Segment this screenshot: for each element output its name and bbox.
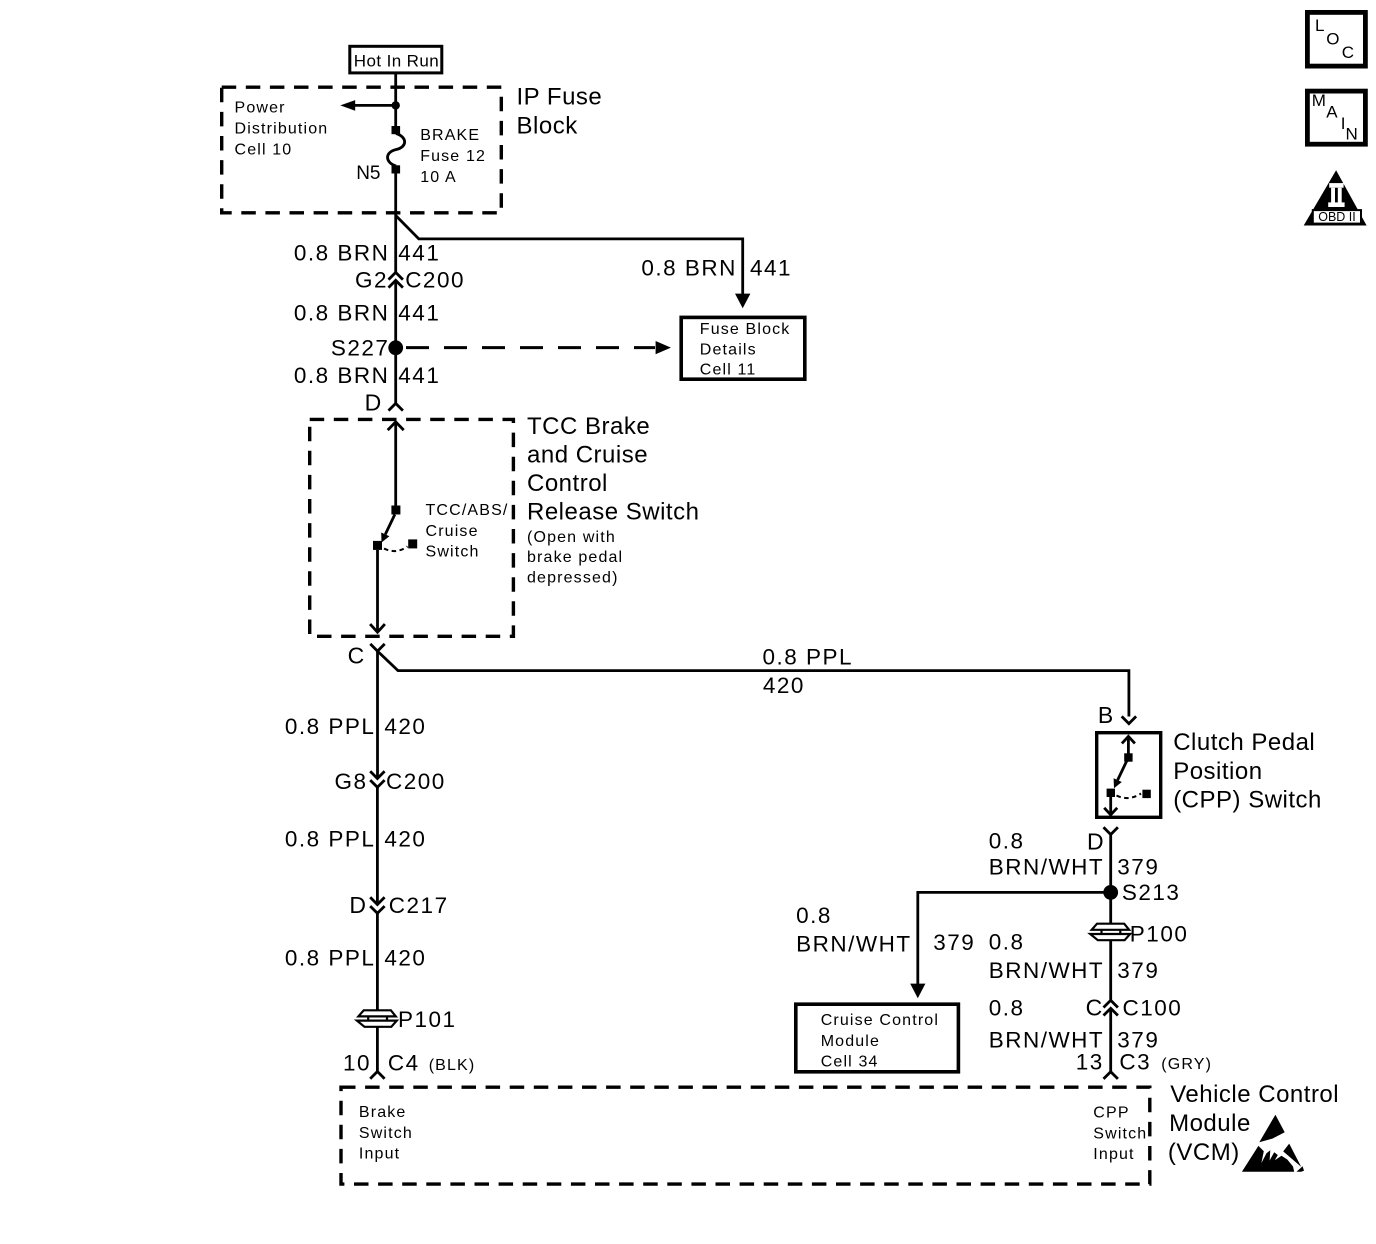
TCC switch blade with arrow — [381, 515, 395, 543]
svg-text:BRN/WHT: BRN/WHT — [989, 958, 1104, 983]
label 0.8 PPL 420 (row 3) — [285, 946, 427, 971]
svg-text:0.8: 0.8 — [989, 930, 1025, 955]
wire C100 to C3 — [1109, 1008, 1112, 1071]
svg-text:Switch: Switch — [1093, 1125, 1147, 1142]
svg-text:Position: Position — [1173, 758, 1262, 785]
terminal C at TCC switch — [348, 643, 385, 669]
terminal D at TCC switch — [365, 389, 403, 415]
svg-text:(Open with: (Open with — [527, 529, 616, 546]
svg-text:OBD II: OBD II — [1318, 210, 1356, 224]
connector D C217 (double chevron down) — [349, 892, 448, 918]
label 0.8 BRN/WHT 379 (P100 to C100) — [989, 930, 1160, 984]
svg-text:0.8: 0.8 — [989, 828, 1025, 853]
svg-text:Input: Input — [1093, 1146, 1134, 1163]
svg-text:IP Fuse: IP Fuse — [517, 84, 603, 111]
label 0.8 BRN/WHT 379 (CPP to S213) — [989, 828, 1160, 879]
CPP switch blade with arrow — [1114, 761, 1127, 788]
label 0.8 BRN 441 (row 2) — [294, 300, 440, 325]
svg-text:Fuse Block: Fuse Block — [700, 321, 791, 338]
svg-text:(VCM): (VCM) — [1168, 1139, 1240, 1166]
svg-text:D: D — [365, 389, 382, 415]
svg-text:(GRY): (GRY) — [1161, 1056, 1212, 1073]
wire from Hot In Run into IP fuse block — [394, 74, 397, 105]
svg-text:420: 420 — [384, 826, 426, 851]
svg-text:B: B — [1098, 702, 1114, 728]
svg-text:C: C — [1086, 994, 1103, 1020]
Fuse Block Details Cell 11 box — [681, 317, 805, 379]
svg-text:N5: N5 — [356, 163, 380, 184]
TCC switch upper contact — [391, 506, 400, 515]
svg-text:D: D — [349, 892, 366, 918]
svg-text:C: C — [348, 643, 365, 669]
svg-text:379: 379 — [933, 930, 975, 955]
Vehicle Control Module dashed box — [341, 1087, 1150, 1184]
svg-text:441: 441 — [398, 300, 440, 325]
svg-text:N: N — [1346, 125, 1359, 144]
svg-text:O: O — [1326, 30, 1340, 49]
grommet P100 — [1090, 922, 1188, 947]
connector C C100 (double chevron up) — [989, 994, 1183, 1020]
svg-text:Module: Module — [1169, 1110, 1251, 1137]
svg-text:and Cruise: and Cruise — [527, 441, 648, 468]
IP Fuse Block label — [517, 84, 603, 140]
svg-text:0.8 BRN: 0.8 BRN — [294, 363, 390, 388]
svg-text:441: 441 — [750, 256, 792, 281]
arrow to Power Distribution — [340, 100, 395, 111]
terminal 13 C3 (GRY) — [1076, 1049, 1212, 1079]
CPP switch exit wire with arrow (down) — [1104, 797, 1117, 815]
wire from fuse down to G2 connector — [394, 174, 397, 273]
svg-text:depressed): depressed) — [527, 570, 619, 587]
svg-text:441: 441 — [398, 363, 440, 388]
svg-text:S213: S213 — [1122, 880, 1181, 905]
svg-text:10: 10 — [343, 1050, 371, 1075]
MAIN page symbol — [1307, 91, 1365, 144]
svg-text:Brake: Brake — [359, 1104, 407, 1121]
TCC switch throw contact and dashed arc — [384, 539, 417, 551]
connector G8 C200 (double chevron down) — [334, 769, 445, 794]
TCC/ABS/Cruise Switch label — [426, 502, 509, 560]
svg-text:C4: C4 — [388, 1050, 420, 1075]
svg-text:Vehicle Control: Vehicle Control — [1170, 1081, 1339, 1108]
svg-text:Cruise Control: Cruise Control — [821, 1012, 939, 1029]
svg-text:420: 420 — [763, 673, 805, 698]
svg-text:Cell 34: Cell 34 — [821, 1054, 879, 1071]
svg-text:(CPP) Switch: (CPP) Switch — [1173, 786, 1322, 813]
LOC page symbol — [1307, 12, 1365, 66]
svg-text:441: 441 — [398, 240, 440, 265]
terminal 10 C4 (BLK) — [343, 1050, 475, 1078]
svg-text:Clutch Pedal: Clutch Pedal — [1173, 729, 1315, 756]
fuse F12 BRAKE 10A — [388, 126, 405, 174]
wire S213 to P100 — [1109, 892, 1112, 923]
TCC Brake and Cruise Control Release Switch dashed box — [310, 419, 514, 636]
wire C217 to P101 — [376, 913, 379, 1010]
CPP Switch Input label — [1093, 1105, 1147, 1164]
terminal B at CPP switch — [1098, 702, 1136, 728]
svg-text:Switch: Switch — [426, 544, 480, 561]
Power Distribution Cell 10 label — [235, 99, 329, 158]
svg-text:brake pedal: brake pedal — [527, 549, 623, 566]
svg-text:A: A — [1326, 103, 1338, 122]
CPP switch lower contact — [1107, 789, 1115, 797]
Hot In Run feed box — [350, 46, 442, 73]
svg-text:S227: S227 — [331, 335, 390, 360]
svg-text:D: D — [1087, 828, 1104, 854]
svg-text:Distribution: Distribution — [235, 120, 329, 137]
svg-text:Cell 11: Cell 11 — [700, 362, 757, 379]
wire D to S213 — [1109, 835, 1112, 893]
TCC switch lower contact — [373, 541, 382, 550]
svg-text:Details: Details — [700, 341, 757, 358]
svg-text:P100: P100 — [1130, 922, 1189, 947]
label 0.8 PPL 420 (branch) — [763, 645, 854, 698]
label 0.8 PPL 420 (row 1) — [285, 714, 427, 739]
svg-text:0.8: 0.8 — [796, 903, 832, 928]
svg-text:M: M — [1312, 91, 1327, 110]
splice S213 — [1103, 880, 1180, 905]
svg-text:Fuse 12: Fuse 12 — [420, 148, 486, 165]
CPP switch upper contact — [1124, 753, 1132, 761]
grommet P101 — [357, 1007, 457, 1032]
label BRN/WHT 379 (C100 to VCM) — [989, 1028, 1160, 1053]
svg-text:379: 379 — [1117, 958, 1159, 983]
wire G8 to D C217 — [376, 787, 379, 904]
junction dot at fuse feed — [392, 101, 400, 109]
BRAKE Fuse 12 10 A label — [420, 127, 486, 186]
svg-text:BRN/WHT: BRN/WHT — [796, 932, 912, 957]
svg-text:0.8 PPL: 0.8 PPL — [285, 946, 376, 971]
svg-text:G2: G2 — [355, 268, 388, 293]
svg-text:0.8 BRN: 0.8 BRN — [641, 256, 737, 281]
splice S227 — [331, 335, 403, 360]
svg-text:420: 420 — [384, 714, 426, 739]
svg-text:Cell 10: Cell 10 — [235, 141, 293, 158]
svg-text:G8: G8 — [334, 769, 367, 794]
svg-text:Control: Control — [527, 470, 608, 497]
TCC switch exit wire with arrow (down) — [370, 550, 385, 632]
ESD warning triangle 1 — [1259, 1115, 1284, 1143]
connector G2 C200 (double chevron up) — [355, 268, 465, 293]
svg-text:C217: C217 — [389, 893, 449, 918]
svg-text:Cruise: Cruise — [426, 523, 479, 540]
svg-text:TCC/ABS/: TCC/ABS/ — [426, 502, 509, 519]
TCC Brake and Cruise Control Release Switch label — [527, 413, 699, 587]
svg-text:Hot In Run: Hot In Run — [354, 52, 439, 71]
svg-text:C200: C200 — [386, 769, 446, 794]
svg-text:C3: C3 — [1119, 1049, 1151, 1074]
svg-text:C200: C200 — [405, 268, 465, 293]
svg-text:BRN/WHT: BRN/WHT — [989, 855, 1104, 880]
svg-text:10 A: 10 A — [420, 169, 457, 186]
dashed reference line S227 to Fuse Block Details — [406, 341, 671, 354]
ESD warning symbol 2 (triangle with hand) — [1242, 1144, 1304, 1172]
svg-text:Block: Block — [517, 113, 579, 140]
label 0.8 BRN 441 (row 1) — [294, 240, 440, 265]
Cruise Control Module Cell 34 box — [796, 1004, 959, 1072]
svg-text:BRAKE: BRAKE — [420, 127, 480, 144]
svg-text:Module: Module — [821, 1033, 880, 1050]
svg-text:0.8 BRN: 0.8 BRN — [294, 300, 390, 325]
label 0.8 BRN/WHT 379 (cruise branch) — [796, 903, 975, 957]
Brake Switch Input label — [359, 1104, 413, 1163]
svg-text:Power: Power — [235, 99, 286, 116]
wire P101 to C4 — [376, 1027, 379, 1072]
svg-text:0.8 BRN: 0.8 BRN — [294, 240, 390, 265]
arrow into Fuse Block Details — [735, 294, 750, 309]
svg-text:TCC Brake: TCC Brake — [527, 413, 650, 440]
CPP switch throw contact and dashed arc — [1117, 790, 1151, 798]
terminal D at CPP switch — [1087, 827, 1118, 854]
label 0.8 PPL 420 (row 2) — [285, 826, 427, 851]
Clutch Pedal Position (CPP) Switch label — [1173, 729, 1322, 813]
label 0.8 BRN 441 (row 3) — [294, 363, 440, 388]
wire branch C to CPP switch — [378, 651, 1129, 716]
arrow into Cruise Control Module — [910, 984, 925, 999]
svg-text:379: 379 — [1117, 855, 1159, 880]
svg-text:Switch: Switch — [359, 1125, 413, 1142]
Clutch Pedal Position switch box — [1097, 733, 1161, 818]
wire P100 to C100 — [1109, 940, 1112, 1000]
svg-text:(BLK): (BLK) — [429, 1057, 476, 1074]
svg-text:Release Switch: Release Switch — [527, 499, 699, 526]
wire branch to fuse block details — [396, 216, 743, 296]
OBD II symbol — [1304, 170, 1367, 225]
wire C down to G8 — [376, 651, 379, 778]
Vehicle Control Module (VCM) label — [1168, 1081, 1339, 1166]
wire branch S213 to cruise control module — [918, 892, 1111, 985]
TCC switch entry arrow (up) — [388, 422, 404, 506]
svg-text:P101: P101 — [398, 1007, 457, 1032]
CPP switch entry arrow (up) — [1122, 736, 1135, 754]
wire G2 to S227 — [394, 280, 397, 403]
svg-text:13: 13 — [1076, 1049, 1104, 1074]
svg-text:0.8 PPL: 0.8 PPL — [285, 714, 376, 739]
svg-text:C: C — [1342, 43, 1355, 62]
svg-text:Input: Input — [359, 1146, 400, 1163]
svg-text:L: L — [1315, 16, 1325, 35]
svg-text:CPP: CPP — [1093, 1105, 1129, 1122]
svg-text:0.8 PPL: 0.8 PPL — [763, 645, 854, 670]
svg-text:C100: C100 — [1123, 995, 1183, 1020]
label 0.8 BRN 441 (branch) — [641, 256, 792, 281]
svg-text:0.8 PPL: 0.8 PPL — [285, 826, 376, 851]
svg-text:420: 420 — [384, 946, 426, 971]
wire dot to fuse — [394, 105, 397, 127]
IP Fuse Block dashed box — [222, 87, 502, 213]
svg-text:0.8: 0.8 — [989, 995, 1025, 1020]
